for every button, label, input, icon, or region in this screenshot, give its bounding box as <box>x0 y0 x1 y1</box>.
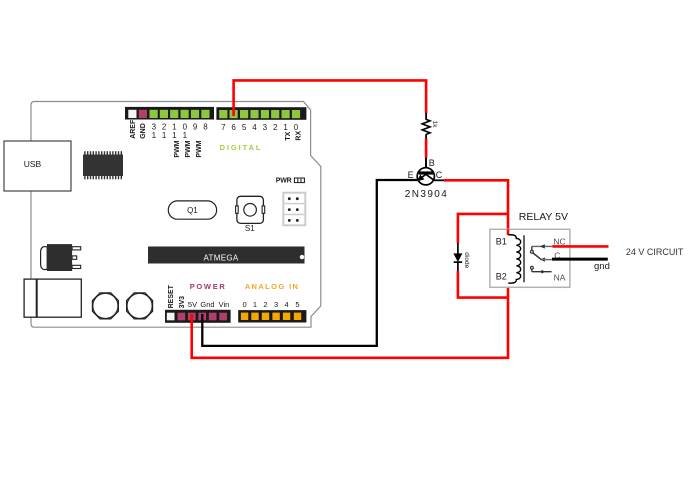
capacitor C1 <box>92 293 118 319</box>
wire red: into coil top <box>507 229 510 235</box>
svg-text:GND: GND <box>140 123 147 139</box>
ATMEGA chip <box>148 247 305 264</box>
svg-text:3: 3 <box>274 300 278 309</box>
power header labels <box>168 284 186 308</box>
svg-text:NA: NA <box>554 273 566 283</box>
svg-text:S1: S1 <box>245 224 255 233</box>
svg-text:1: 1 <box>152 131 157 140</box>
svg-text:DIGITAL: DIGITAL <box>220 143 263 152</box>
svg-text:C: C <box>436 170 443 180</box>
svg-text:2: 2 <box>263 300 267 309</box>
svg-text:B: B <box>429 158 435 168</box>
svg-text:AREF: AREF <box>130 119 137 139</box>
digital header left strip <box>125 107 214 120</box>
svg-text:B1: B1 <box>496 237 507 247</box>
svg-text:1: 1 <box>253 300 257 309</box>
svg-text:5: 5 <box>295 300 299 309</box>
svg-text:1k: 1k <box>431 121 438 129</box>
svg-text:1: 1 <box>183 131 188 140</box>
svg-text:B2: B2 <box>496 271 507 281</box>
diode D1 <box>453 243 469 271</box>
svg-text:Vin: Vin <box>219 300 230 309</box>
svg-text:PWR: PWR <box>276 178 292 185</box>
reset button S1 <box>236 196 265 233</box>
analog header strip <box>238 310 306 322</box>
svg-text:PWM: PWM <box>196 140 203 157</box>
svg-text:3V3: 3V3 <box>179 296 186 309</box>
svg-text:2: 2 <box>273 123 278 132</box>
svg-text:PWM: PWM <box>174 140 181 157</box>
svg-text:E: E <box>408 170 414 180</box>
relay K1 box <box>490 229 570 287</box>
svg-text:2N3904: 2N3904 <box>405 189 448 200</box>
svg-text:4: 4 <box>285 300 289 309</box>
svg-text:gnd: gnd <box>594 261 610 272</box>
relay NC contact <box>532 244 553 248</box>
relay core bar <box>523 235 525 282</box>
PWR label and battery icon <box>276 178 305 185</box>
relay pivot <box>531 246 534 253</box>
svg-text:RELAY 5V: RELAY 5V <box>519 211 568 223</box>
wire red: collector right and down to relay coil <box>444 180 508 235</box>
power header strip <box>165 310 231 323</box>
wire red: diode bottom to junction <box>458 271 508 298</box>
analog header labels <box>243 300 300 309</box>
svg-text:RESET: RESET <box>168 284 175 308</box>
wire red: coil bottom down, left, up to 5V pin <box>192 283 508 358</box>
svg-text:6: 6 <box>231 123 236 132</box>
svg-text:5: 5 <box>242 123 247 132</box>
svg-text:ANALOG IN: ANALOG IN <box>245 282 300 291</box>
svg-text:diode: diode <box>463 252 470 268</box>
wire red: resistor to transistor base <box>425 138 428 158</box>
ICSP header 3x2 <box>283 193 305 226</box>
USB connector <box>4 141 71 191</box>
crystal Q1 <box>168 201 216 219</box>
IC chip (SMD) <box>83 151 123 179</box>
digital header right labels <box>221 123 299 132</box>
Arduino board outline <box>31 102 321 328</box>
digital header right strip <box>216 107 306 120</box>
wire red: branch to diode <box>458 214 508 243</box>
svg-text:24 V CIRCUIT: 24 V CIRCUIT <box>626 247 684 257</box>
svg-text:USB: USB <box>24 159 42 169</box>
svg-text:1: 1 <box>162 131 167 140</box>
svg-text:3: 3 <box>263 123 268 132</box>
svg-text:4: 4 <box>252 123 257 132</box>
svg-text:0: 0 <box>243 300 247 309</box>
relay armature <box>533 253 553 262</box>
wire red: pin6 up, right, down to resistor <box>234 80 427 116</box>
svg-text:9: 9 <box>193 123 198 132</box>
svg-text:PWM: PWM <box>185 140 192 157</box>
svg-text:NC: NC <box>553 236 565 246</box>
svg-text:1: 1 <box>172 131 177 140</box>
digital header left labels <box>130 119 147 139</box>
wire black: collector lead <box>434 179 445 181</box>
wire red: NC to 24V <box>553 245 609 248</box>
svg-text:Q1: Q1 <box>187 206 198 215</box>
voltage regulator <box>41 244 81 271</box>
wire black: C to gnd <box>552 258 608 261</box>
svg-text:8: 8 <box>203 123 208 132</box>
relay NA contact <box>531 266 552 273</box>
capacitor C2 <box>127 293 153 319</box>
relay coil <box>508 235 520 283</box>
svg-text:0: 0 <box>294 123 299 132</box>
svg-text:1: 1 <box>283 123 288 132</box>
svg-text:TX: TX <box>285 131 292 140</box>
svg-text:5V: 5V <box>188 300 197 309</box>
svg-text:ATMEGA: ATMEGA <box>204 253 239 262</box>
transistor Q2 2N3904 <box>405 158 448 200</box>
svg-text:7: 7 <box>221 123 226 132</box>
wire black: emitter left, down, left, up to Gnd pin <box>202 180 417 346</box>
svg-text:POWER: POWER <box>190 282 227 291</box>
resistor R1 <box>422 113 438 139</box>
power jack <box>24 279 81 317</box>
svg-text:Gnd: Gnd <box>200 300 214 309</box>
svg-text:RX: RX <box>295 131 302 141</box>
